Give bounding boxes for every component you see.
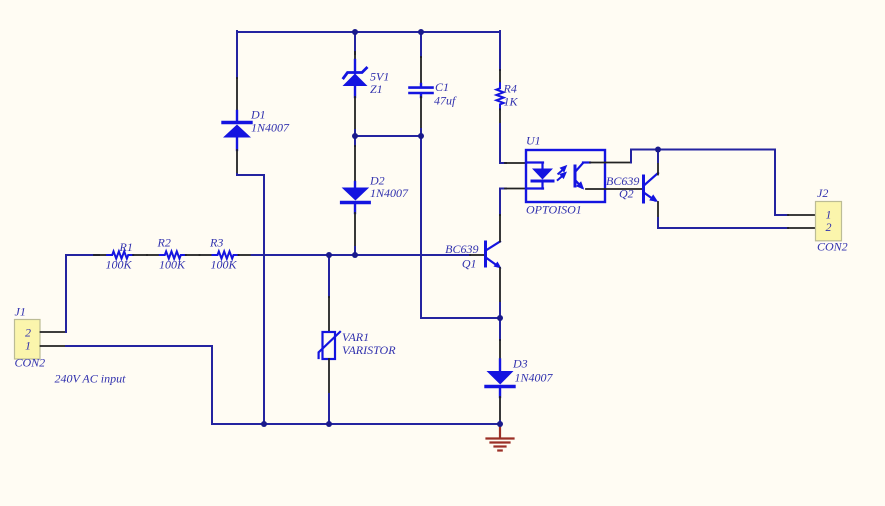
pin VAR1 bottom lead (328, 359, 330, 394)
svg-text:D3: D3 (512, 356, 528, 370)
op-amp U1 optocoupler box (526, 150, 605, 202)
svg-text:C1: C1 (435, 80, 449, 94)
pin C1 bottom lead (420, 97, 422, 129)
wire R4 to U1 anode (500, 124, 506, 163)
junction base net at varistor (326, 252, 332, 258)
pin D3 anode lead (499, 397, 501, 421)
pin D2 anode lead (354, 213, 356, 247)
junction top rail at zener (352, 29, 358, 35)
svg-text:R2: R2 (157, 236, 171, 250)
wire J1 pin1 to bottom rail (66, 346, 500, 424)
resistor R4 (496, 83, 503, 109)
svg-text:100K: 100K (106, 258, 133, 272)
connector J1 box (15, 320, 41, 360)
wire zener bottom (354, 130, 356, 136)
wire R4 top corner (499, 31, 501, 70)
pin D1 cathode lead (236, 78, 238, 111)
wire base net R3 to Q1 (252, 254, 470, 256)
junction ground node (497, 421, 503, 427)
junction emitter node Q1 (497, 315, 503, 321)
transistor Q2 (644, 173, 659, 202)
pin R1 left lead (94, 254, 107, 256)
svg-text:CON2: CON2 (817, 239, 848, 253)
wire D1 top vertical (236, 31, 238, 78)
wire U1 collector up to node (631, 150, 658, 163)
wire top rail (237, 31, 500, 33)
svg-text:1K: 1K (504, 95, 519, 109)
pin J2 pin1 lead (788, 214, 816, 216)
wire D2 bottom (354, 247, 356, 255)
svg-text:1: 1 (25, 339, 31, 353)
pin Z1 anode lead (354, 97, 356, 130)
svg-text:R1: R1 (119, 240, 133, 254)
wire node to J2 pin1 (658, 150, 788, 216)
pin D3 cathode lead (499, 340, 501, 360)
wire middle rail (355, 135, 421, 137)
wire zener top (354, 32, 356, 54)
pin Q2 emitter lead (657, 202, 659, 218)
pin Q2 collector lead (657, 162, 659, 175)
varistor VAR1 (319, 332, 340, 359)
svg-text:R3: R3 (209, 236, 223, 250)
svg-text:Z1: Z1 (370, 82, 383, 96)
pin U1 anode lead (505, 162, 526, 164)
pin C1 top lead (420, 57, 422, 84)
svg-text:100K: 100K (211, 258, 238, 272)
zener diode Z1 (343, 60, 368, 97)
wire U1 cathode to Q1 collector (500, 189, 506, 216)
wire varistor top (328, 255, 330, 297)
resistor R1 (107, 251, 133, 258)
junction base net at D2 (352, 252, 358, 258)
svg-text:100K: 100K (159, 258, 186, 272)
wire C1 down to emitter node (421, 136, 500, 318)
pin Q1 collector lead (499, 215, 501, 242)
diode D3 (486, 360, 514, 398)
svg-text:1N4007: 1N4007 (370, 186, 409, 200)
pin R1 right lead (133, 254, 147, 256)
svg-text:U1: U1 (526, 134, 541, 148)
svg-text:J1: J1 (15, 305, 26, 319)
wire C1 top (420, 32, 422, 57)
svg-text:VARISTOR: VARISTOR (342, 343, 396, 357)
wire D2 top (354, 136, 356, 146)
U1 phototransistor (575, 163, 584, 190)
U1 light arrow 1 (558, 172, 567, 181)
connector J2 box (816, 202, 842, 241)
junction bottom rail at D1 branch (261, 421, 267, 427)
svg-text:VAR1: VAR1 (342, 330, 369, 344)
diode D2 (342, 182, 370, 213)
svg-text:J2: J2 (817, 186, 828, 200)
pin R4 top lead (499, 70, 501, 83)
transistor Q1 (486, 242, 502, 269)
pin U1 cathode lead (505, 188, 526, 190)
pin D1 anode lead (236, 150, 238, 174)
svg-text:Q1: Q1 (462, 257, 477, 271)
diode D1 (223, 111, 251, 150)
junction middle rail at D2 (352, 133, 358, 139)
pin J2 pin2 lead (788, 227, 816, 229)
svg-text:2: 2 (25, 326, 31, 340)
svg-text:Q2: Q2 (619, 187, 634, 201)
pin U1 emitter lead to Q2 base (586, 188, 643, 190)
svg-text:47uf: 47uf (434, 94, 457, 108)
svg-text:240V AC input: 240V AC input (55, 372, 127, 386)
svg-text:CON2: CON2 (15, 356, 46, 370)
svg-text:BC639: BC639 (445, 242, 478, 256)
wire D3 to ground node (499, 421, 501, 424)
pin Z1 cathode lead (354, 52, 356, 60)
pin VAR1 top lead (328, 297, 330, 332)
svg-text:1N4007: 1N4007 (251, 121, 290, 135)
U1 internal LED (532, 163, 553, 189)
wire Q1 emitter down (499, 303, 501, 318)
wire Q2 collector to node (657, 150, 659, 163)
svg-text:OPTOISO1: OPTOISO1 (526, 203, 582, 217)
U1 light arrow 2 (558, 165, 567, 174)
wire Q2 emitter to J2 pin2 (658, 218, 788, 228)
wire J1 pin2 up to resistor chain (66, 255, 99, 332)
capacitor C1 (410, 84, 433, 97)
ground (487, 427, 514, 451)
pin Q1 base lead (470, 254, 484, 256)
pin R4 bottom lead (499, 109, 501, 124)
junction Q2 collector node (655, 147, 661, 153)
svg-text:R4: R4 (503, 82, 517, 96)
wire C1 bottom (420, 129, 422, 136)
pin R3 right lead (239, 254, 252, 256)
wire emitter node to D3 (499, 318, 501, 340)
pin J1 pin2 lead (41, 331, 67, 333)
resistor R2 (160, 251, 186, 258)
pin R3 left lead (200, 254, 213, 256)
wire D1 bottom jog (237, 174, 264, 424)
pin D2 cathode lead (354, 146, 356, 182)
pin R2 right lead (186, 254, 200, 256)
pin Q1 emitter lead (499, 268, 501, 303)
junction top rail at C1 (418, 29, 424, 35)
junction bottom rail at varistor (326, 421, 332, 427)
pin U1 collector lead (583, 161, 590, 163)
pin J1 pin1 lead (41, 345, 67, 347)
svg-text:1N4007: 1N4007 (515, 371, 554, 385)
svg-text:2: 2 (826, 220, 832, 234)
pin R2 left lead (147, 254, 160, 256)
svg-text:D1: D1 (250, 108, 266, 122)
resistor R3 (213, 251, 239, 258)
wire varistor bottom (328, 394, 330, 424)
junction middle rail at C1 (418, 133, 424, 139)
